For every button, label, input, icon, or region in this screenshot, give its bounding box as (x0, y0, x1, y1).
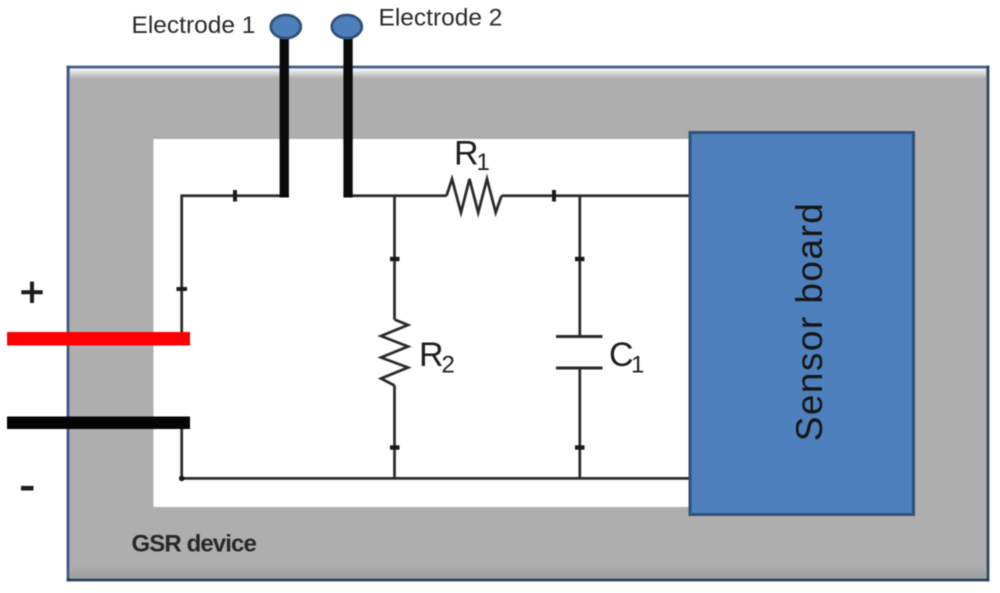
wire: C1 branch vertical (578, 196, 581, 479)
enclosure bottom inner shade (70, 566, 986, 578)
battery positive lead (red bar) (7, 332, 190, 346)
wire: top-right segment (electrode E2 to sensor board) (347, 194, 690, 197)
resistor R2 (vertical zigzag) (381, 320, 408, 386)
svg-text:R: R (454, 135, 479, 173)
enclosure border right edge (987, 66, 990, 582)
wire: bottom return segment (182, 429, 690, 478)
svg-text:1: 1 (631, 352, 644, 379)
label R2 (419, 336, 455, 379)
enclosure top inner highlight (70, 69, 986, 81)
junction tick on C1 branch upper (575, 257, 585, 261)
svg-text:GSR device: GSR device (132, 531, 257, 558)
label - (negative terminal) (21, 486, 34, 491)
junction dot on C1 branch lower (575, 445, 585, 449)
resistor R1 (horizontal zigzag) (447, 179, 502, 213)
svg-text:Electrode 1: Electrode 1 (132, 12, 256, 39)
junction dot at bottom-left corner (179, 476, 185, 482)
label R1 (454, 135, 490, 177)
electrode E2 pin (black bar) (343, 28, 352, 198)
capacitor C1 (two plates) (556, 337, 603, 369)
label C1 (609, 336, 644, 379)
enclosure border bottom edge (67, 579, 990, 582)
wire: top-left segment (corner to electrode E1) (182, 196, 289, 333)
svg-text:Sensor board: Sensor board (789, 202, 830, 442)
junction tick on top-left wire (233, 190, 237, 202)
electrode E1 pad (blue ellipse) (271, 15, 301, 38)
sensor board U1 (blue rectangle) (690, 133, 914, 515)
electrode E2 pad (blue ellipse) (332, 15, 362, 38)
label + (positive terminal) (21, 282, 42, 303)
junction dot on R2 branch lower (390, 445, 400, 449)
battery negative lead (black bar) (7, 417, 190, 430)
wire: R2 branch vertical (393, 196, 396, 479)
electrode E1 pin (black bar) (280, 28, 289, 198)
junction tick on top wire after R1 (552, 190, 556, 202)
svg-text:1: 1 (477, 149, 490, 176)
enclosure border left edge (67, 66, 70, 582)
inner cavity (white) (154, 139, 912, 507)
junction tick on R2 branch upper (390, 257, 400, 261)
enclosure border top edge (67, 66, 990, 69)
svg-text:C: C (609, 336, 634, 374)
svg-text:R: R (419, 336, 444, 374)
svg-text:2: 2 (442, 352, 455, 379)
svg-text:Electrode 2: Electrode 2 (379, 5, 503, 32)
junction tick on left vertical wire (177, 287, 188, 291)
enclosure outer wall (GSR device body) (68, 67, 988, 580)
